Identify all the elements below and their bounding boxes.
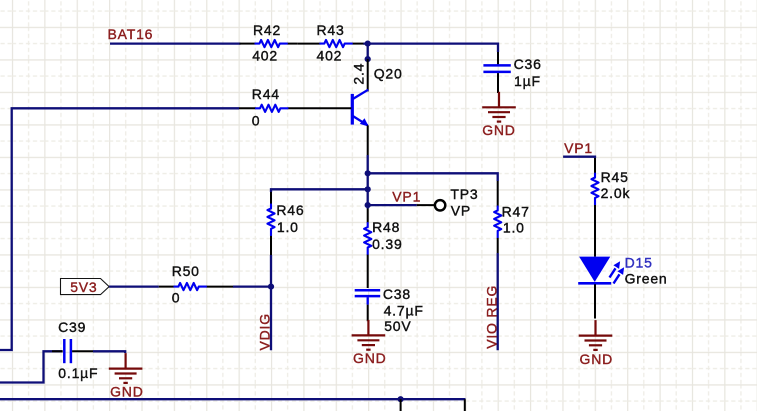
svg-text:0.39: 0.39 bbox=[372, 236, 402, 252]
svg-text:0: 0 bbox=[252, 112, 261, 128]
svg-text:0: 0 bbox=[172, 290, 181, 306]
wire between R42 and R43 bbox=[298, 43, 321, 45]
svg-text:C36: C36 bbox=[514, 56, 542, 72]
LED D15 bbox=[578, 255, 667, 319]
svg-text:5V3: 5V3 bbox=[70, 279, 97, 295]
svg-text:VDIG: VDIG bbox=[256, 313, 272, 350]
node junction low bbox=[365, 202, 371, 208]
wire to TP3 bbox=[368, 204, 417, 206]
resistor R50 bbox=[159, 263, 233, 306]
resistor R46 bbox=[267, 192, 304, 255]
svg-text:R48: R48 bbox=[372, 219, 400, 235]
svg-text:VP1: VP1 bbox=[564, 140, 593, 156]
node junction at R43 output bbox=[365, 41, 371, 47]
node junction mid bbox=[365, 186, 371, 192]
wire BAT16 horizontal bbox=[110, 42, 241, 44]
wire C39 right to GND bbox=[93, 351, 125, 353]
node junction R50/VDIG bbox=[268, 284, 274, 290]
svg-text:GND: GND bbox=[110, 383, 144, 399]
svg-text:TP3: TP3 bbox=[450, 186, 478, 202]
svg-text:402: 402 bbox=[317, 47, 343, 63]
svg-text:C39: C39 bbox=[58, 319, 86, 335]
resistor R43 bbox=[317, 22, 365, 63]
svg-text:Green: Green bbox=[625, 271, 668, 287]
svg-text:R46: R46 bbox=[276, 202, 304, 218]
svg-text:VIO REG: VIO REG bbox=[484, 285, 500, 349]
test point TP3 bbox=[417, 186, 479, 219]
wire VP1 right bbox=[563, 157, 595, 158]
svg-text:VP: VP bbox=[451, 203, 471, 219]
resistor R47 bbox=[494, 181, 530, 253]
svg-text:2.0k: 2.0k bbox=[601, 185, 631, 201]
wire collector stub bbox=[367, 44, 369, 60]
ground GND for C39 bbox=[109, 353, 144, 399]
svg-text:R42: R42 bbox=[253, 22, 281, 38]
wire to R46 bbox=[271, 189, 368, 192]
svg-text:2.4: 2.4 bbox=[351, 63, 367, 85]
wire R50 to VDIG bbox=[233, 285, 271, 287]
svg-text:R45: R45 bbox=[601, 169, 629, 185]
ground GND for C36 bbox=[482, 92, 516, 138]
ground GND for C38 bbox=[352, 320, 387, 366]
wire to R47 bbox=[368, 173, 498, 181]
svg-text:VP1: VP1 bbox=[392, 189, 421, 205]
svg-text:4.7µF: 4.7µF bbox=[384, 302, 424, 318]
svg-text:GND: GND bbox=[580, 351, 614, 367]
wire emitter to mid junction bbox=[367, 155, 369, 209]
svg-text:R44: R44 bbox=[252, 86, 280, 102]
resistor R48 bbox=[364, 209, 402, 289]
wire bottom bus bbox=[0, 398, 466, 400]
svg-text:0.1µF: 0.1µF bbox=[58, 365, 98, 381]
svg-text:R50: R50 bbox=[172, 263, 200, 279]
svg-text:50V: 50V bbox=[384, 318, 411, 334]
capacitor C38 bbox=[355, 286, 424, 334]
pin stub bottom left bbox=[400, 399, 402, 411]
svg-text:1µF: 1µF bbox=[514, 73, 541, 89]
capacitor C36 bbox=[483, 52, 541, 93]
transistor Q20 bbox=[351, 59, 403, 155]
port 5V3 bbox=[61, 279, 110, 295]
node junction bottom bbox=[398, 396, 404, 402]
svg-text:D15: D15 bbox=[625, 255, 653, 271]
node junction top bbox=[365, 170, 371, 176]
resistor R42 bbox=[240, 22, 298, 63]
ground GND for D15 bbox=[579, 320, 613, 367]
capacitor C39 bbox=[52, 319, 98, 381]
pin stub bottom right bbox=[464, 399, 466, 411]
svg-text:R47: R47 bbox=[502, 204, 530, 220]
resistor R44 bbox=[239, 86, 351, 129]
node junction collector bbox=[365, 56, 371, 62]
svg-text:402: 402 bbox=[252, 47, 278, 63]
svg-text:GND: GND bbox=[353, 350, 387, 366]
svg-text:1.0: 1.0 bbox=[503, 219, 525, 235]
wire junction to C36 corner bbox=[363, 44, 498, 52]
svg-text:1.0: 1.0 bbox=[277, 219, 299, 235]
svg-text:C38: C38 bbox=[383, 286, 411, 302]
wire C39 left bbox=[0, 351, 63, 382]
svg-text:GND: GND bbox=[482, 122, 516, 138]
wire 5V3 to R50 bbox=[109, 285, 159, 287]
svg-text:Q20: Q20 bbox=[374, 65, 403, 81]
wire VIO REG bbox=[497, 253, 499, 350]
wire R44 net bbox=[0, 108, 239, 350]
svg-text:R43: R43 bbox=[317, 22, 345, 38]
svg-text:BAT16: BAT16 bbox=[108, 26, 154, 42]
wire VDIG bbox=[270, 255, 272, 350]
resistor R45 bbox=[591, 158, 630, 257]
